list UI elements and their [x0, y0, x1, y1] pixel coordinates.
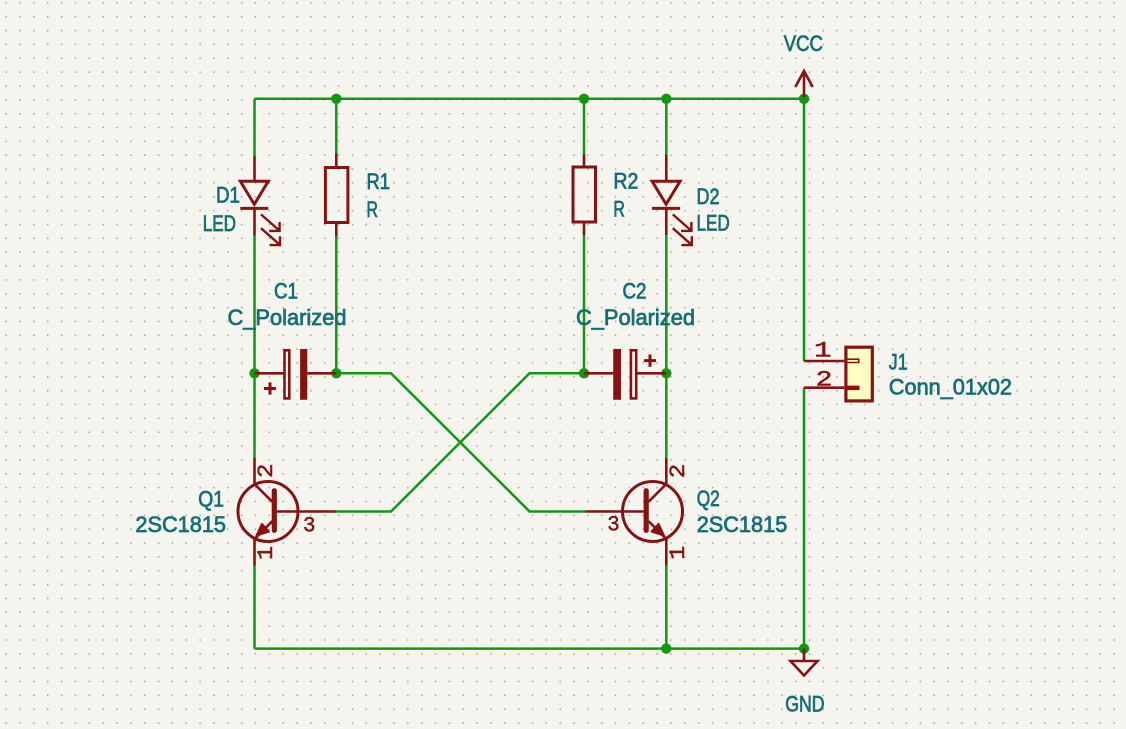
capacitor C2	[584, 349, 666, 400]
svg-text:R1: R1	[367, 169, 391, 194]
power symbol VCC	[795, 71, 812, 97]
wire D2 to Q2 collector	[665, 235, 668, 458]
wire R2 bottom to C2	[583, 235, 586, 373]
wire R1 bottom to C1	[335, 237, 338, 374]
wire R2 top	[583, 99, 586, 154]
wire top rail	[255, 98, 805, 101]
wire D2 top	[665, 99, 668, 155]
resistor R2	[573, 154, 596, 235]
wire R1 top	[335, 99, 338, 154]
svg-text:Conn_01x02: Conn_01x02	[889, 375, 1012, 400]
svg-text:J1: J1	[889, 350, 908, 375]
svg-text:Q2: Q2	[697, 486, 720, 511]
svg-text:2: 2	[254, 463, 279, 478]
svg-text:3: 3	[607, 513, 620, 538]
svg-text:1: 1	[254, 546, 279, 560]
svg-text:C1: C1	[274, 278, 298, 303]
LED D1	[240, 156, 280, 245]
wire J1 pin2 to bottom rail	[803, 388, 806, 649]
resistor R1	[325, 154, 348, 237]
svg-text:2: 2	[666, 464, 691, 479]
wire VCC to J1 pin1	[803, 99, 806, 361]
svg-text:1: 1	[814, 339, 832, 364]
svg-text:D1: D1	[216, 183, 240, 208]
LED D2	[652, 155, 692, 246]
wire Q2 emitter to bottom rail	[665, 566, 668, 649]
wire left rail upper	[253, 99, 256, 156]
svg-text:2SC1815: 2SC1815	[697, 512, 788, 537]
svg-text:GND: GND	[785, 692, 824, 717]
wire left rail lower	[253, 566, 256, 649]
wire C1 to Q2 base (cross)	[336, 373, 585, 511]
connector J1	[804, 347, 872, 401]
svg-text:LED: LED	[697, 211, 730, 236]
svg-text:C_Polarized: C_Polarized	[576, 305, 695, 330]
svg-text:LED: LED	[203, 211, 236, 236]
svg-text:C2: C2	[622, 279, 646, 304]
capacitor C1	[255, 349, 337, 400]
svg-text:2SC1815: 2SC1815	[135, 512, 226, 537]
svg-text:R: R	[367, 197, 379, 222]
power symbol GND	[791, 649, 818, 676]
svg-text:C_Polarized: C_Polarized	[228, 305, 347, 330]
transistor Q2	[586, 458, 683, 566]
wire bottom rail	[255, 647, 805, 650]
svg-text:VCC: VCC	[784, 31, 823, 56]
wire left rail mid	[253, 236, 256, 459]
transistor Q1	[238, 458, 336, 566]
svg-text:3: 3	[303, 513, 316, 538]
svg-text:1: 1	[666, 546, 691, 560]
wire C2 to Q1 base (cross)	[336, 373, 585, 511]
svg-text:R: R	[613, 197, 625, 222]
svg-text:2: 2	[816, 368, 833, 393]
svg-text:D2: D2	[697, 184, 720, 209]
svg-text:Q1: Q1	[198, 486, 224, 511]
svg-text:R2: R2	[613, 169, 638, 194]
